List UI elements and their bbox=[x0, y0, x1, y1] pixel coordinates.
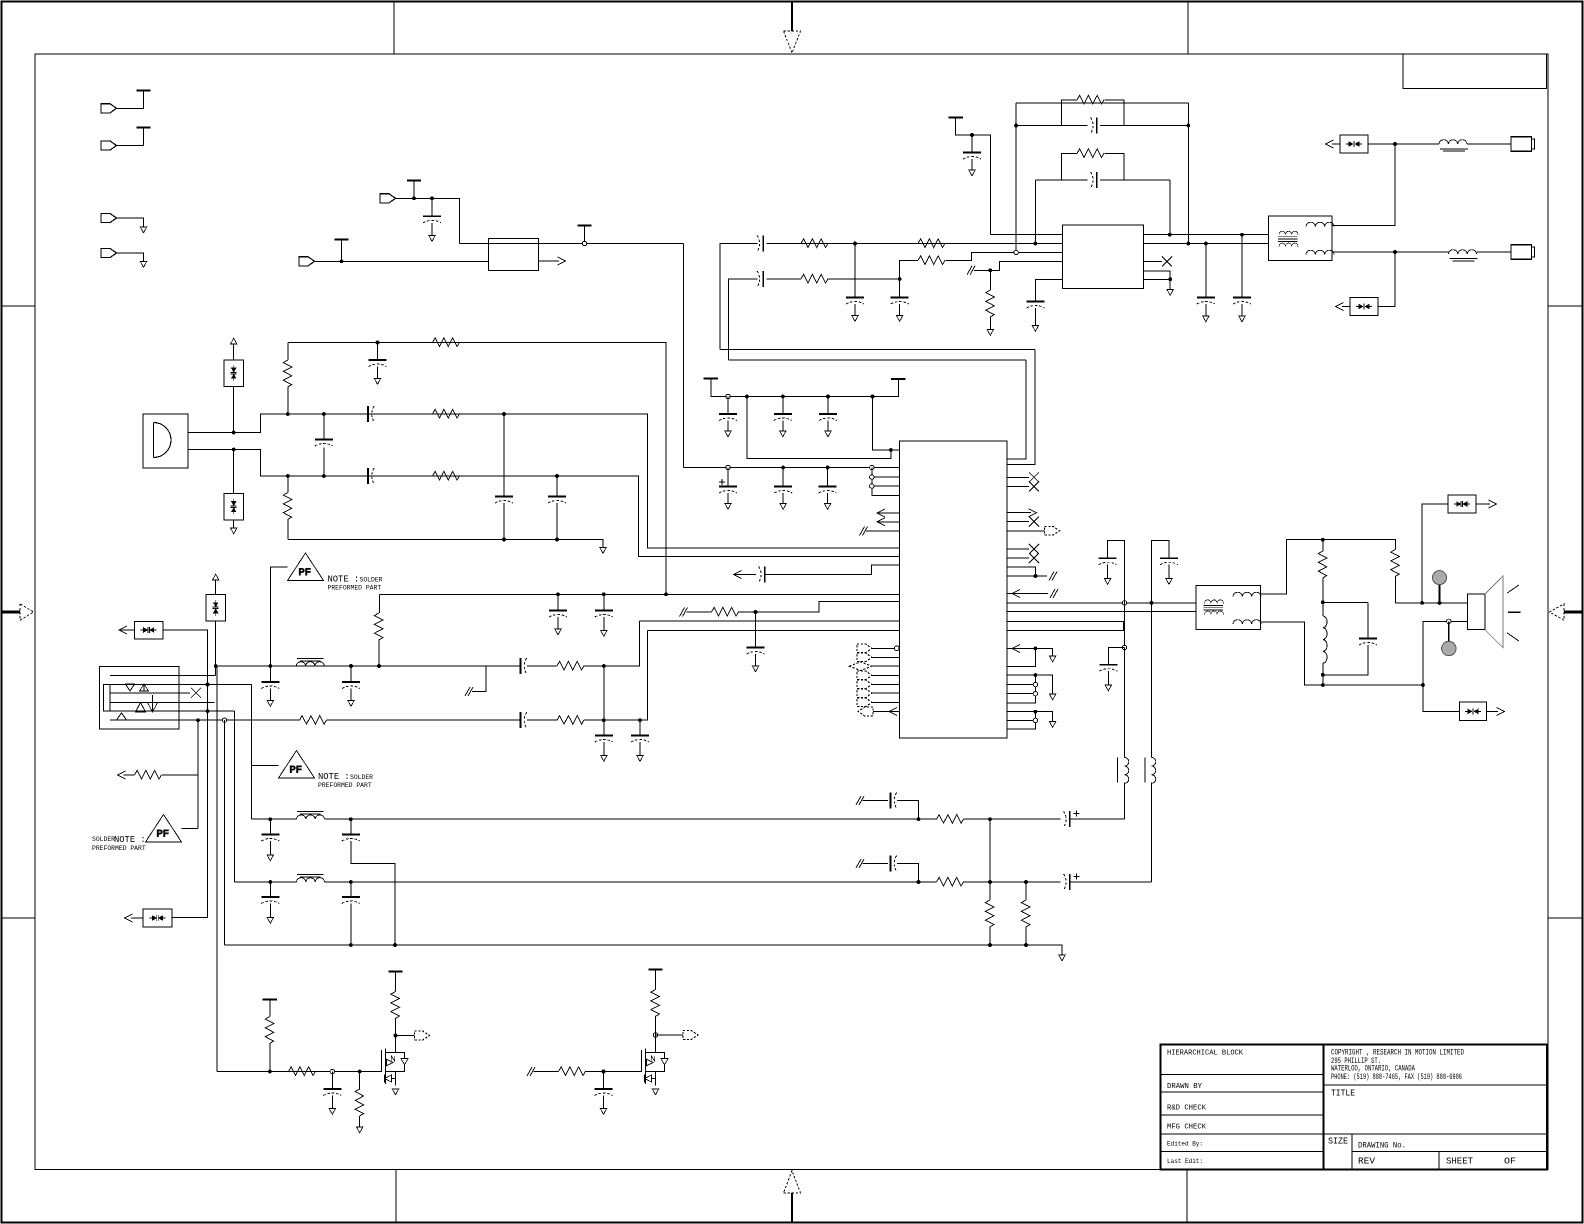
coil (vertical) bbox=[1117, 757, 1119, 782]
test point (gray) bbox=[1439, 585, 1441, 603]
tied pin drops bbox=[872, 468, 900, 496]
resistor bbox=[1077, 149, 1104, 158]
inductor bbox=[1279, 243, 1298, 246]
vertical to lower diode bbox=[1378, 252, 1396, 307]
ground bbox=[825, 431, 831, 437]
wire bbox=[557, 617, 559, 629]
node bbox=[1168, 233, 1172, 237]
resistor bbox=[985, 900, 994, 927]
wire bbox=[503, 503, 505, 540]
wire bbox=[182, 775, 199, 828]
wire bbox=[297, 658, 324, 661]
core lines bbox=[1450, 259, 1478, 262]
title block left rows bbox=[1161, 1075, 1324, 1152]
wire bbox=[395, 972, 397, 992]
inductor bbox=[296, 662, 324, 666]
wire bbox=[154, 423, 172, 458]
wire bbox=[1007, 610, 1196, 612]
node bbox=[502, 538, 506, 542]
capacitor bbox=[261, 682, 279, 689]
drain pennant bbox=[396, 1035, 415, 1037]
node bbox=[377, 664, 381, 668]
node bbox=[781, 466, 785, 470]
arrowhead bbox=[1012, 590, 1020, 598]
diode element bbox=[150, 915, 166, 921]
border arrow left center bbox=[2, 611, 21, 614]
ground bbox=[725, 431, 731, 437]
capacitor bbox=[719, 487, 737, 494]
wire bbox=[734, 574, 757, 576]
ground bbox=[1105, 685, 1111, 691]
capacitor bbox=[1233, 298, 1251, 305]
wire bbox=[527, 665, 557, 667]
wire bbox=[1007, 685, 1035, 694]
ground bbox=[140, 227, 146, 233]
ground bbox=[637, 756, 643, 762]
speaker top wire bbox=[1323, 601, 1468, 604]
svg-text:WATERLOO, ONTARIO, CANADA: WATERLOO, ONTARIO, CANADA bbox=[1331, 1066, 1415, 1074]
capacitor bbox=[891, 793, 897, 809]
svg-text:DRAWING No.: DRAWING No. bbox=[1358, 1141, 1406, 1151]
wire bbox=[148, 695, 158, 712]
resistor bbox=[283, 360, 292, 387]
capacitor bbox=[595, 1089, 613, 1096]
pennant pin bbox=[857, 653, 872, 662]
power bar bbox=[949, 117, 963, 119]
ground bbox=[780, 504, 786, 510]
node bbox=[1204, 242, 1208, 246]
node bbox=[853, 242, 857, 246]
open node bbox=[1033, 718, 1037, 722]
ground bbox=[267, 701, 273, 707]
input port arrow 1 bbox=[101, 104, 117, 113]
wire bbox=[269, 1044, 271, 1072]
resistor bbox=[1077, 95, 1104, 104]
node bbox=[268, 664, 272, 668]
node bbox=[1321, 683, 1325, 687]
wire bbox=[1467, 143, 1511, 145]
diode box D8 + arrow bbox=[143, 909, 172, 927]
wire bbox=[460, 243, 684, 245]
wire bbox=[964, 818, 1061, 820]
wire bbox=[1025, 882, 1027, 900]
ground bbox=[1239, 316, 1245, 322]
power bar bbox=[136, 90, 150, 92]
resistor bbox=[1021, 900, 1030, 927]
mic wires bbox=[188, 414, 899, 548]
border tick left upper bbox=[2, 305, 36, 307]
capacitor bbox=[747, 648, 765, 655]
input port arrow bbox=[380, 194, 396, 203]
node bbox=[781, 395, 785, 399]
diamond pin bbox=[850, 662, 872, 671]
wire bbox=[956, 118, 991, 235]
resistor bbox=[557, 716, 584, 725]
loop stubs bbox=[1062, 100, 1125, 126]
divider resistors to rail bbox=[989, 819, 991, 900]
RC loop 1 wires bbox=[1016, 125, 1188, 127]
wire bbox=[315, 260, 489, 262]
no-connect slashes bbox=[465, 687, 473, 696]
wire to inductor bbox=[1395, 143, 1439, 145]
node bbox=[412, 196, 416, 200]
border tick right lower bbox=[1548, 917, 1583, 919]
node bbox=[602, 718, 606, 722]
microphone MK1 bbox=[143, 414, 188, 468]
connector line L2 bbox=[110, 684, 251, 686]
wire bbox=[1205, 304, 1207, 316]
border tick right upper bbox=[1548, 305, 1583, 307]
wire bbox=[782, 493, 784, 504]
wire bbox=[1394, 577, 1396, 603]
capacitor to gnd bbox=[557, 594, 559, 610]
junction node bbox=[1034, 710, 1038, 714]
power bar bbox=[577, 225, 591, 227]
row wire right bbox=[325, 881, 919, 883]
capacitor bbox=[719, 414, 737, 421]
wire bbox=[287, 476, 289, 493]
title block right dividers bbox=[1324, 1085, 1548, 1170]
wire bbox=[271, 567, 288, 666]
border arrow bottom center bbox=[791, 1193, 793, 1223]
wire bbox=[124, 774, 135, 776]
connector line L6 (row B start) bbox=[110, 719, 300, 721]
wire bbox=[136, 703, 146, 713]
cap hat on node 1124.5 bbox=[1108, 540, 1125, 602]
wire bbox=[603, 742, 605, 756]
ground bbox=[1049, 722, 1055, 728]
node bbox=[988, 943, 992, 947]
reverse pennant pin bbox=[858, 707, 873, 716]
svg-text:PREFORMED PART: PREFORMED PART bbox=[92, 845, 146, 852]
node bbox=[358, 1070, 362, 1074]
node (open) bbox=[870, 475, 874, 479]
polarized cap to gnd bbox=[727, 468, 729, 487]
wire bbox=[655, 1017, 657, 1036]
open node bbox=[1033, 692, 1037, 696]
diode box D7 + arrow bbox=[119, 626, 127, 634]
jack J2 bbox=[1511, 245, 1535, 259]
node bbox=[502, 412, 506, 416]
ground bbox=[852, 316, 858, 322]
resistor bbox=[712, 607, 739, 616]
RC loop 2 wires bbox=[1035, 179, 1170, 181]
border tick bottom right bbox=[1186, 1170, 1188, 1223]
node bbox=[376, 341, 380, 345]
diode element bbox=[141, 627, 157, 633]
resistor up to rail 594 bbox=[378, 640, 380, 666]
vertical through coil to cap row bbox=[1124, 648, 1126, 758]
wire bbox=[287, 387, 289, 414]
resistor bbox=[937, 815, 964, 824]
wire bbox=[1034, 308, 1036, 326]
connector line L4 bbox=[110, 701, 215, 703]
primary coils bbox=[1279, 231, 1298, 234]
transformer T1 box bbox=[1269, 216, 1333, 261]
wire bbox=[395, 1019, 397, 1036]
node bbox=[232, 448, 236, 452]
wire bbox=[188, 450, 899, 557]
wire bbox=[117, 713, 127, 720]
capacitor bbox=[1099, 665, 1117, 672]
wire to inductor 2 bbox=[1395, 251, 1449, 253]
protection diode box D1 bbox=[1340, 135, 1368, 153]
ground bbox=[1203, 316, 1209, 322]
diode element bbox=[231, 499, 237, 515]
node bbox=[430, 196, 434, 200]
ground bbox=[348, 701, 354, 707]
PF note 1 bbox=[251, 764, 278, 766]
core lines bbox=[1204, 605, 1224, 610]
node bbox=[1033, 242, 1037, 246]
primary coils bbox=[1205, 600, 1224, 603]
wire bbox=[1035, 712, 1052, 722]
node bbox=[286, 412, 290, 416]
test point bbox=[1433, 571, 1447, 585]
core lines bbox=[1278, 237, 1298, 242]
pull resistor w/ T bbox=[263, 999, 277, 1001]
ground bbox=[140, 262, 146, 268]
wire bbox=[1070, 818, 1124, 820]
svg-text:SIZE: SIZE bbox=[1328, 1136, 1348, 1147]
node bbox=[826, 466, 830, 470]
node bbox=[1393, 250, 1397, 254]
resistor bbox=[374, 613, 383, 640]
wire bbox=[1107, 565, 1109, 579]
secondary coil top bbox=[1306, 222, 1334, 226]
ground bbox=[601, 756, 607, 762]
svg-text:Edited By:: Edited By: bbox=[1167, 1141, 1203, 1148]
wire bbox=[341, 240, 343, 262]
leads bbox=[233, 344, 235, 433]
wire bbox=[1323, 645, 1368, 675]
ground bbox=[752, 666, 758, 672]
wire bbox=[1074, 811, 1080, 817]
no-connect slashes bbox=[1049, 572, 1057, 581]
no-connect slashes bbox=[967, 266, 975, 275]
speaker drive wires bbox=[1007, 602, 1268, 604]
cap to gnd bbox=[1241, 235, 1243, 298]
node bbox=[602, 664, 606, 668]
capacitor bbox=[774, 487, 792, 494]
svg-text:OF: OF bbox=[1504, 1156, 1516, 1167]
test point 2 (gray) bbox=[1448, 621, 1450, 641]
inductor bbox=[297, 815, 325, 819]
polarized series cap bbox=[1064, 874, 1070, 890]
node bbox=[206, 709, 210, 713]
node (open) bbox=[222, 718, 226, 722]
junction node bbox=[889, 448, 893, 452]
wire bbox=[873, 711, 899, 713]
wire bbox=[872, 701, 899, 703]
series capacitor bbox=[759, 567, 765, 583]
capacitor bbox=[595, 736, 613, 743]
arrow-in tied pins bbox=[1007, 648, 1035, 666]
wire bbox=[603, 617, 605, 631]
node bbox=[1438, 601, 1442, 605]
row 819: nc + series cap jog bbox=[856, 796, 864, 805]
inductor L1 bbox=[1439, 140, 1467, 144]
drop to IC pin bbox=[873, 397, 900, 451]
ground bbox=[725, 504, 731, 510]
wire bbox=[827, 493, 829, 504]
wire bbox=[1035, 648, 1052, 656]
capacitor bbox=[1359, 639, 1377, 646]
box bbox=[104, 685, 111, 712]
inductor L2 bbox=[1449, 250, 1477, 254]
vertical feeder to MOSFET row bbox=[215, 675, 217, 1071]
wire bbox=[872, 477, 900, 486]
resistor (vertical) bbox=[1322, 540, 1324, 551]
wire bbox=[863, 863, 889, 865]
node bbox=[1240, 233, 1244, 237]
arrowhead bbox=[125, 914, 133, 922]
cap to gnd bbox=[1108, 648, 1124, 665]
wire bbox=[117, 218, 144, 227]
cap to gnd on pin2 net bbox=[854, 244, 856, 298]
capacitor bbox=[495, 497, 513, 504]
series resistor bbox=[289, 1067, 316, 1076]
bias resistor top bbox=[287, 343, 289, 361]
wire bbox=[989, 927, 991, 945]
wire bbox=[269, 841, 271, 855]
capacitor bbox=[774, 414, 792, 421]
resistor on rail bbox=[433, 338, 460, 347]
wire bbox=[378, 594, 380, 613]
parallel L-C tank bbox=[1322, 602, 1324, 616]
vertical 2 through coil bbox=[1151, 603, 1153, 758]
row wire right bbox=[325, 818, 919, 820]
connector line L5 bbox=[110, 710, 234, 712]
pull-up resistor bbox=[648, 969, 662, 971]
ground bbox=[267, 855, 273, 861]
arrowhead bbox=[1012, 644, 1020, 652]
speaker LS1 bbox=[1468, 594, 1486, 630]
node bbox=[268, 817, 272, 821]
connector line L3 + X bbox=[110, 692, 190, 694]
power bar bbox=[891, 378, 905, 380]
capacitor bbox=[342, 682, 360, 689]
wire bbox=[1550, 604, 1565, 620]
top output bbox=[1332, 144, 1395, 226]
wire bbox=[1124, 783, 1126, 820]
IC pin wire 630.4 bbox=[648, 629, 900, 631]
svg-text:SOLDER: SOLDER bbox=[360, 577, 383, 584]
top diode chain (box D9 above connector) bbox=[206, 595, 226, 622]
ground bbox=[1059, 955, 1065, 961]
wire bbox=[899, 304, 901, 316]
resistor to gnd bbox=[359, 1072, 361, 1090]
capacitor (series) bbox=[1091, 172, 1097, 188]
capacitor bbox=[315, 440, 333, 447]
loop stubs bbox=[1062, 154, 1125, 181]
wire bbox=[163, 630, 208, 685]
wire bbox=[1062, 125, 1125, 127]
no-connect X bbox=[1029, 544, 1039, 554]
wire bbox=[989, 317, 991, 330]
box bbox=[1448, 495, 1476, 513]
node bbox=[898, 277, 902, 281]
wire bbox=[897, 864, 919, 883]
node bbox=[349, 664, 353, 668]
wire bbox=[1062, 179, 1125, 181]
row 882: nc + series cap jog bbox=[856, 859, 864, 868]
wire bbox=[20, 604, 34, 620]
arrow up bbox=[213, 574, 219, 580]
wire bbox=[872, 665, 900, 667]
wire bbox=[1168, 565, 1170, 579]
vertical down from 1124.5 bbox=[1124, 603, 1126, 648]
diode box D3 (vertical) bbox=[224, 360, 244, 387]
wire bbox=[1070, 881, 1151, 883]
arrow out pin bbox=[1007, 512, 1031, 514]
wire bbox=[1025, 927, 1027, 945]
node bbox=[970, 133, 974, 137]
wire bbox=[323, 446, 325, 476]
node bbox=[917, 880, 921, 884]
tied jog pins bbox=[1007, 567, 1047, 576]
pennant pin bbox=[857, 698, 872, 707]
wire bbox=[323, 414, 325, 440]
wire bbox=[413, 181, 415, 199]
wire bbox=[765, 565, 899, 575]
diode element bbox=[213, 600, 219, 616]
border tick left lower bbox=[2, 917, 36, 919]
resistor bbox=[651, 990, 660, 1017]
capacitor bbox=[261, 897, 279, 904]
node bbox=[349, 817, 353, 821]
node bbox=[556, 592, 560, 596]
input port arrow 3 bbox=[101, 213, 117, 222]
resistor bbox=[265, 1017, 274, 1044]
arrow + nc pin bbox=[1007, 593, 1048, 595]
wire bbox=[1007, 602, 1196, 604]
junction node bbox=[1034, 647, 1038, 651]
bridge verticals bbox=[1016, 103, 1188, 252]
inductor bbox=[297, 878, 325, 882]
wire bbox=[119, 629, 135, 631]
wire bbox=[755, 654, 757, 666]
wire bbox=[395, 1036, 397, 1050]
ground bbox=[429, 236, 435, 242]
capacitor bbox=[549, 611, 567, 618]
capacitor bbox=[819, 487, 837, 494]
ground bbox=[601, 631, 607, 637]
wire bbox=[1342, 306, 1350, 308]
U-tied pins bbox=[1007, 621, 1123, 630]
wire bbox=[782, 421, 784, 432]
ground bbox=[231, 528, 237, 534]
no-connect X bbox=[191, 688, 201, 698]
arrow resistor row bbox=[162, 720, 198, 775]
wire bbox=[872, 674, 899, 676]
wire bbox=[584, 621, 640, 666]
test point bbox=[1442, 641, 1456, 655]
capacitor bbox=[261, 835, 279, 842]
ground bbox=[969, 170, 975, 176]
row 819 wire bbox=[251, 818, 936, 820]
arrowhead bbox=[889, 708, 897, 716]
pennant flag bbox=[683, 1031, 698, 1040]
power bar bbox=[407, 180, 421, 182]
box bbox=[135, 622, 164, 640]
node (open) bbox=[1122, 601, 1126, 605]
svg-text:PREFORMED PART: PREFORMED PART bbox=[328, 585, 382, 592]
junction node bbox=[1034, 574, 1038, 578]
ground bbox=[780, 431, 786, 437]
capacitor bbox=[971, 135, 973, 153]
tied pin cluster 3 bbox=[1007, 712, 1035, 730]
